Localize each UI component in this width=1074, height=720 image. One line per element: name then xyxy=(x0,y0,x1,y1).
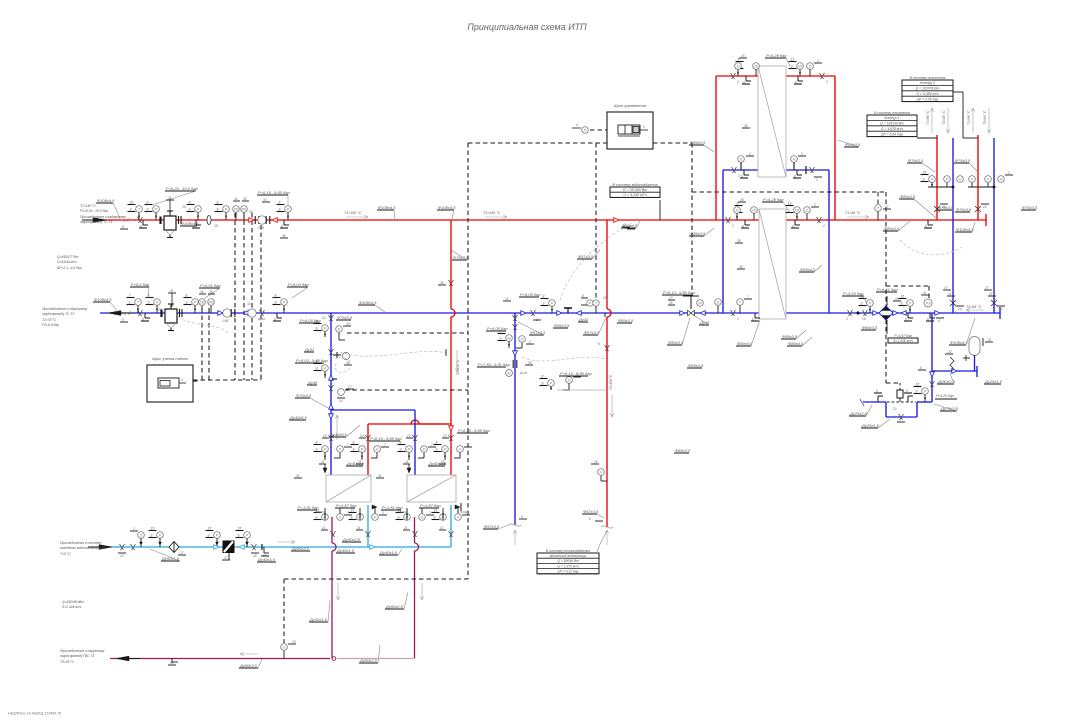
b607 end squiggle xyxy=(589,517,613,528)
svg-text:Ду45: Ду45 xyxy=(307,380,318,385)
svg-text:P: P xyxy=(159,534,162,538)
label F76 r4 xyxy=(955,207,972,212)
label d25 makeup xyxy=(984,379,1003,384)
svg-text:Ф108х4,5: Ф108х4,5 xyxy=(950,340,968,345)
red branch vent x607 xyxy=(607,220,611,527)
sensor T red main right xyxy=(875,192,891,220)
svg-text:14: 14 xyxy=(339,399,343,403)
vent circle U xyxy=(281,640,296,659)
svg-text:Ду50х2,8: Ду50х2,8 xyxy=(342,537,361,542)
svg-text:9: 9 xyxy=(275,301,277,305)
svg-text:8: 8 xyxy=(436,441,438,445)
svg-text:19: 19 xyxy=(292,640,296,644)
HXA blue TI L xyxy=(738,152,754,170)
pump junction dot xyxy=(856,311,859,314)
svg-text:8: 8 xyxy=(400,441,402,445)
svg-text:D: D xyxy=(140,534,143,538)
svg-text:9: 9 xyxy=(316,327,318,331)
HX2 bottom row xyxy=(381,503,470,537)
label dy40 hx1 xyxy=(346,461,365,466)
red branch to DHW HX x451 xyxy=(451,220,455,424)
svg-text:D: D xyxy=(339,448,342,452)
label F89 top2 xyxy=(899,194,936,218)
svg-text:33: 33 xyxy=(263,198,267,202)
water system table xyxy=(610,183,660,220)
svg-text:6: 6 xyxy=(752,318,754,322)
svg-text:D: D xyxy=(421,516,424,520)
svg-text:D: D xyxy=(809,65,812,69)
b515 D xyxy=(516,336,534,348)
capillary 1 xyxy=(340,349,446,356)
svg-text:Р=6,02...9,85 бар: Р=6,02...9,85 бар xyxy=(296,358,328,363)
PI gauge 3 xyxy=(215,201,230,221)
svg-text:9: 9 xyxy=(147,208,149,212)
svg-text:17: 17 xyxy=(669,296,673,300)
HX1 top row xyxy=(314,434,403,473)
svg-text:Ф89х3,5: Ф89х3,5 xyxy=(668,340,684,345)
pipe T1 supply main (red) xyxy=(100,219,986,221)
label ld50b xyxy=(291,546,310,551)
label d50 makeup xyxy=(937,373,956,384)
red down arrow 607 xyxy=(610,395,613,417)
svg-text:15: 15 xyxy=(901,295,905,299)
svg-text:V: V xyxy=(457,516,460,520)
pump foot xyxy=(904,313,913,322)
T1 inlet texts xyxy=(80,204,126,224)
svg-text:ΔР = 0,54 бар: ΔР = 0,54 бар xyxy=(880,132,903,136)
label dy40 hx2 xyxy=(428,461,447,466)
svg-text:Р=6,03 бар: Р=6,03 бар xyxy=(288,282,309,287)
branch331 valve3 xyxy=(307,375,337,391)
makeup lower line xyxy=(860,399,932,406)
svg-text:Ду40х1,8: Ду40х1,8 xyxy=(379,550,398,555)
svg-text:2: 2 xyxy=(736,80,739,84)
T1 sbend xyxy=(120,218,130,229)
svg-text:11: 11 xyxy=(405,460,409,464)
meter leads blue xyxy=(202,308,209,380)
svg-text:P: P xyxy=(287,208,290,212)
svg-text:38: 38 xyxy=(739,265,743,269)
label F89 mid2 xyxy=(883,221,910,231)
T2 inline circle xyxy=(247,302,256,317)
svg-text:+1: +1 xyxy=(597,342,601,346)
svg-text:9: 9 xyxy=(788,209,790,213)
svg-text:Р=4,53 бар: Р=4,53 бар xyxy=(843,291,864,296)
red flow tri 2 xyxy=(272,218,277,223)
foot 6c xyxy=(280,220,289,229)
svg-text:S=1,528 м³/ч: S=1,528 м³/ч xyxy=(893,339,913,343)
makeup foot R xyxy=(904,389,913,402)
b515 end squiggle xyxy=(509,515,527,526)
svg-text:11: 11 xyxy=(440,526,444,530)
svg-text:Ф76х3,5: Ф76х3,5 xyxy=(956,207,972,212)
HX-A red riser left xyxy=(715,76,717,220)
V1 meter xyxy=(222,553,230,560)
b607 P xyxy=(540,371,608,390)
blue tri mid r xyxy=(557,311,562,316)
T3 outlet arrow xyxy=(116,656,140,661)
svg-text:6: 6 xyxy=(925,225,927,229)
svg-text:Ф76х3,5: Ф76х3,5 xyxy=(908,158,924,163)
plate HX1 stage xyxy=(326,475,371,502)
label F89c xyxy=(799,265,822,272)
title xyxy=(467,22,587,32)
V1 flow arrow xyxy=(277,540,295,543)
HXA red valve L xyxy=(731,73,740,84)
svg-text:17: 17 xyxy=(885,205,889,209)
capillary 5 xyxy=(900,240,962,255)
svg-text:В систему отопления: В систему отопления xyxy=(874,111,910,115)
label T1150 arrow xyxy=(344,211,368,219)
svg-text:Ду32: Ду32 xyxy=(578,317,589,322)
svg-text:Ду25х1,8: Ду25х1,8 xyxy=(861,423,880,428)
svg-text:21: 21 xyxy=(922,291,927,295)
T2 TI xyxy=(127,294,142,314)
label ld32b xyxy=(379,549,402,555)
pressure regulator xyxy=(680,296,705,316)
svg-text:Т1=95 °С: Т1=95 °С xyxy=(845,211,861,215)
svg-text:Ду32: Ду32 xyxy=(304,347,315,352)
HXB blue foot xyxy=(751,313,760,322)
PI gauge 2 xyxy=(181,201,201,221)
svg-text:Р=3,97 бар: Р=3,97 бар xyxy=(894,334,912,338)
svg-text:9: 9 xyxy=(400,448,402,452)
label ld50d xyxy=(359,645,380,663)
svg-text:8: 8 xyxy=(543,295,545,299)
label F108 mid1 xyxy=(377,205,396,219)
makeup P xyxy=(914,383,929,403)
svg-text:13: 13 xyxy=(170,661,174,665)
svg-text:7: 7 xyxy=(431,443,433,447)
HXB red valve L xyxy=(726,217,735,228)
svg-text:6: 6 xyxy=(743,81,745,85)
svg-text:ΔР=2,1...4,6 бар: ΔР=2,1...4,6 бар xyxy=(56,266,82,270)
label F89g xyxy=(667,318,690,345)
riser arrows xyxy=(926,108,991,133)
heat meter stub xyxy=(193,380,198,382)
svg-text:Контур 1: Контур 1 xyxy=(885,116,900,120)
svg-text:31: 31 xyxy=(296,474,300,478)
PI blue mid xyxy=(541,295,556,314)
svg-text:Ф89х3,5: Ф89х3,5 xyxy=(690,140,706,145)
svg-text:P: P xyxy=(408,448,411,452)
svg-text:Q = 55098 Вт: Q = 55098 Вт xyxy=(557,559,579,563)
label F108 blue end xyxy=(949,318,975,345)
svg-text:1: 1 xyxy=(643,125,645,129)
label 21 ps xyxy=(921,291,929,295)
label F76 b331 xyxy=(295,393,328,408)
svg-text:15: 15 xyxy=(434,509,438,513)
svg-text:2: 2 xyxy=(816,59,819,63)
main pump xyxy=(873,306,906,320)
svg-text:23: 23 xyxy=(892,407,897,411)
svg-text:Ф89х4,5: Ф89х4,5 xyxy=(788,341,804,346)
label F108 T2 xyxy=(93,297,118,312)
b515 M2 xyxy=(506,370,528,377)
HXA blue valve R xyxy=(810,167,815,173)
makeup loop valve xyxy=(892,407,905,422)
svg-text:Р=8,10...9,85 бар: Р=8,10...9,85 бар xyxy=(370,436,402,441)
svg-text:Р2=6,9 бар: Р2=6,9 бар xyxy=(42,323,59,327)
label F57 b515 xyxy=(518,322,546,335)
svg-text:11: 11 xyxy=(505,297,509,301)
svg-text:9: 9 xyxy=(543,302,545,306)
svg-text:17: 17 xyxy=(944,286,948,290)
label F89 786b xyxy=(787,337,812,346)
svg-text:9: 9 xyxy=(316,448,318,452)
HXA blue foot R xyxy=(793,170,822,182)
label F89d xyxy=(689,228,714,236)
svg-text:W: W xyxy=(798,65,802,69)
b515 tri xyxy=(513,351,518,356)
b515 flange xyxy=(513,360,533,368)
pipe T2 return main (blue) xyxy=(100,312,1000,314)
svg-text:16: 16 xyxy=(741,54,745,58)
svg-text:Р=8,15...9,85 бар: Р=8,15...9,85 бар xyxy=(458,428,490,433)
control bus top right xyxy=(653,142,692,144)
meter bus up stub xyxy=(260,352,262,380)
svg-text:15: 15 xyxy=(323,434,327,438)
svg-text:Контур 2: Контур 2 xyxy=(920,81,935,85)
T2 PI 1 xyxy=(146,294,161,314)
PI gauge 4 xyxy=(277,201,292,221)
svg-text:N: N xyxy=(1000,178,1003,182)
svg-text:6: 6 xyxy=(792,225,794,229)
svg-text:PE: PE xyxy=(208,301,214,305)
label dy40 b1 xyxy=(289,415,308,420)
label T195 arrow xyxy=(845,211,869,219)
svg-text:9: 9 xyxy=(129,301,131,305)
svg-text:8: 8 xyxy=(147,201,149,205)
svg-text:7: 7 xyxy=(467,443,469,447)
svg-text:8: 8 xyxy=(500,330,502,334)
svg-text:Р=8,10...9,85 бар: Р=8,10...9,85 бар xyxy=(663,290,695,295)
T3 foot xyxy=(168,659,178,666)
vent control bus y579 xyxy=(284,578,468,580)
svg-text:Ду32х1,8: Ду32х1,8 xyxy=(309,617,328,622)
label F75 xyxy=(934,404,959,411)
svg-text:2: 2 xyxy=(132,527,135,531)
red down arrow 451 xyxy=(455,350,458,372)
svg-text:9: 9 xyxy=(186,301,188,305)
svg-text:36: 36 xyxy=(249,210,253,214)
svg-text:Р=1,87 бар: Р=1,87 бар xyxy=(420,503,441,508)
svg-text:P: P xyxy=(589,302,592,306)
svg-text:6: 6 xyxy=(741,175,743,179)
circuit2 table xyxy=(902,76,953,102)
V1 D circ xyxy=(130,527,144,547)
svg-text:9: 9 xyxy=(861,302,863,306)
svg-text:11: 11 xyxy=(357,526,361,530)
svg-text:Т1=150 °С: Т1=150 °С xyxy=(344,211,362,215)
svg-text:9: 9 xyxy=(148,301,150,305)
flow meter T1 xyxy=(258,216,266,230)
svg-text:13: 13 xyxy=(791,58,795,62)
label P810 reg xyxy=(662,290,695,305)
label ld50e xyxy=(385,592,408,609)
heat meter cabinet box xyxy=(147,356,193,402)
svg-text:Ду40х3,5: Ду40х3,5 xyxy=(428,461,447,466)
HXB PI L xyxy=(738,198,757,220)
HX1 bottom row xyxy=(297,503,387,537)
svg-text:Р=7,85...9,51 бар: Р=7,85...9,51 бар xyxy=(478,362,510,367)
HXA TI R xyxy=(789,58,804,77)
svg-text:P: P xyxy=(909,302,912,306)
pump PI in xyxy=(859,295,874,314)
svg-text:9: 9 xyxy=(351,516,353,520)
svg-text:2: 2 xyxy=(845,317,848,321)
svg-text:1:65: 1:65 xyxy=(258,226,264,230)
svg-text:Принципиальная схема ИТП: Принципиальная схема ИТП xyxy=(467,22,587,32)
svg-text:Ду50х1,5: Ду50х1,5 xyxy=(161,556,180,561)
T2 texts xyxy=(42,307,87,327)
svg-text:Т=5 °С: Т=5 °С xyxy=(60,552,71,556)
T2 PI 2 xyxy=(184,294,199,314)
svg-text:Р=1,81 бар: Р=1,81 бар xyxy=(382,505,403,510)
svg-text:8: 8 xyxy=(279,201,281,205)
control drop x596 xyxy=(595,143,597,299)
svg-text:11: 11 xyxy=(989,292,993,296)
svg-text:Р=4,28 бар: Р=4,28 бар xyxy=(763,197,784,202)
svg-text:Ф89х3,5: Ф89х3,5 xyxy=(675,448,691,453)
svg-text:2: 2 xyxy=(800,152,803,156)
svg-text:P: P xyxy=(216,534,219,538)
label F57 endr xyxy=(582,509,604,518)
label ld32c xyxy=(309,600,330,622)
svg-text:V: V xyxy=(374,516,377,520)
svg-text:2: 2 xyxy=(1007,171,1010,175)
label F108 end xyxy=(955,222,975,232)
strainer blue mid xyxy=(564,308,572,313)
T2 mud filter xyxy=(157,289,182,331)
svg-text:Ф89х4,5: Ф89х4,5 xyxy=(688,363,704,368)
svg-text:7: 7 xyxy=(129,294,131,298)
svg-text:Ф108х4,5: Ф108х4,5 xyxy=(97,198,115,203)
svg-text:1: 1 xyxy=(816,178,818,182)
big HX-B body xyxy=(759,209,786,319)
svg-text:TE: TE xyxy=(234,208,239,212)
svg-text:Т1=150 °С: Т1=150 °С xyxy=(483,211,501,215)
HX-A red riser right xyxy=(834,76,836,220)
svg-text:Ду40х3,5: Ду40х3,5 xyxy=(346,461,365,466)
svg-text:Ду50х2,8: Ду50х2,8 xyxy=(385,604,404,609)
label d25 left xyxy=(849,405,872,416)
cyan riser HX2 xyxy=(450,505,452,547)
sensor pair mid xyxy=(581,294,607,317)
T2 TE xyxy=(199,299,206,313)
svg-text:Т1=95 °С: Т1=95 °С xyxy=(926,110,930,125)
svg-text:PE: PE xyxy=(241,208,247,212)
label F57 endb xyxy=(483,524,511,529)
V1 filter xyxy=(214,541,244,554)
V1 texts xyxy=(59,541,106,556)
PS circle xyxy=(924,299,932,307)
svg-text:11: 11 xyxy=(404,526,408,530)
svg-text:2: 2 xyxy=(464,511,467,515)
svg-text:Ду50х2,8: Ду50х2,8 xyxy=(359,658,378,663)
table leader k2 xyxy=(953,92,978,138)
svg-text:6: 6 xyxy=(742,225,744,229)
riser valve k1 xyxy=(934,204,948,212)
svg-text:11: 11 xyxy=(322,526,326,530)
T1 T2 consumption text xyxy=(56,255,82,270)
HXA blue valve L xyxy=(732,167,741,178)
blue header y410 xyxy=(331,409,415,411)
svg-text:Р=4,41 бар: Р=4,41 бар xyxy=(877,287,898,292)
svg-text:D: D xyxy=(568,379,571,383)
label 36a xyxy=(249,210,253,214)
svg-text:8: 8 xyxy=(353,441,355,445)
svg-text:Щит учета тепла: Щит учета тепла xyxy=(152,356,188,361)
foot 6e xyxy=(273,313,282,322)
svg-text:22: 22 xyxy=(947,350,952,354)
b607 valve xyxy=(597,342,610,351)
flange a xyxy=(255,216,259,224)
HX-A blue riser left xyxy=(722,170,724,313)
svg-text:34: 34 xyxy=(234,197,238,201)
riser valve k2 xyxy=(975,204,989,212)
svg-text:12: 12 xyxy=(322,316,326,320)
red tri main xyxy=(614,218,619,223)
riser sensors xyxy=(921,171,1014,188)
heating circuit 1 blue riser xyxy=(952,138,954,313)
svg-text:Р=6,05 бар: Р=6,05 бар xyxy=(300,318,321,323)
svg-text:21: 21 xyxy=(987,338,992,342)
svg-text:P: P xyxy=(924,390,927,394)
label ld40 xyxy=(257,557,276,562)
svg-text:Т1=150 °С: Т1=150 °С xyxy=(456,359,460,375)
svg-text:6: 6 xyxy=(794,175,796,179)
red elbow to HX1 xyxy=(368,424,447,475)
label 38a xyxy=(742,124,750,128)
svg-text:17: 17 xyxy=(985,286,989,290)
svg-text:Т2=65 °С: Т2=65 °С xyxy=(983,110,987,125)
HX-A blue header xyxy=(723,169,829,171)
svg-text:D: D xyxy=(717,301,720,305)
label ld50c xyxy=(239,659,262,668)
svg-text:38: 38 xyxy=(346,361,350,365)
svg-text:Т1=150 °С: Т1=150 °С xyxy=(609,374,613,390)
makeup tri down xyxy=(918,366,934,377)
label dy45 xyxy=(695,316,710,325)
svg-text:Т2=65 °С: Т2=65 °С xyxy=(966,305,982,309)
label F108 mid2 xyxy=(437,205,456,219)
svg-text:9: 9 xyxy=(151,534,153,538)
pipe T2 end cap xyxy=(999,307,1001,319)
label F57 under red xyxy=(577,250,600,259)
capillary loop xyxy=(335,358,351,373)
gray arrow vent r xyxy=(605,530,608,545)
svg-text:Ду50х3,0: Ду50х3,0 xyxy=(239,663,258,668)
svg-text:Ф108х4,5: Ф108х4,5 xyxy=(94,297,112,302)
HXB PI R xyxy=(804,203,819,220)
svg-text:14: 14 xyxy=(958,307,962,311)
svg-text:11: 11 xyxy=(321,460,325,464)
svg-text:U: U xyxy=(959,178,962,182)
tank stub xyxy=(963,355,975,371)
svg-text:6: 6 xyxy=(906,389,908,393)
foot 6b xyxy=(192,220,201,229)
svg-text:Р=6,05 бар: Р=6,05 бар xyxy=(520,292,541,297)
svg-text:холодного водоснабжения В1: холодного водоснабжения В1 xyxy=(59,546,106,550)
V1 foot xyxy=(261,544,269,557)
svg-text:Р=1,87 бар: Р=1,87 бар xyxy=(336,503,357,508)
label F89 mid xyxy=(621,221,640,228)
svg-text:35: 35 xyxy=(243,197,247,201)
svg-text:P: P xyxy=(931,178,934,182)
stamp xyxy=(8,712,61,716)
svg-text:8: 8 xyxy=(275,294,277,298)
